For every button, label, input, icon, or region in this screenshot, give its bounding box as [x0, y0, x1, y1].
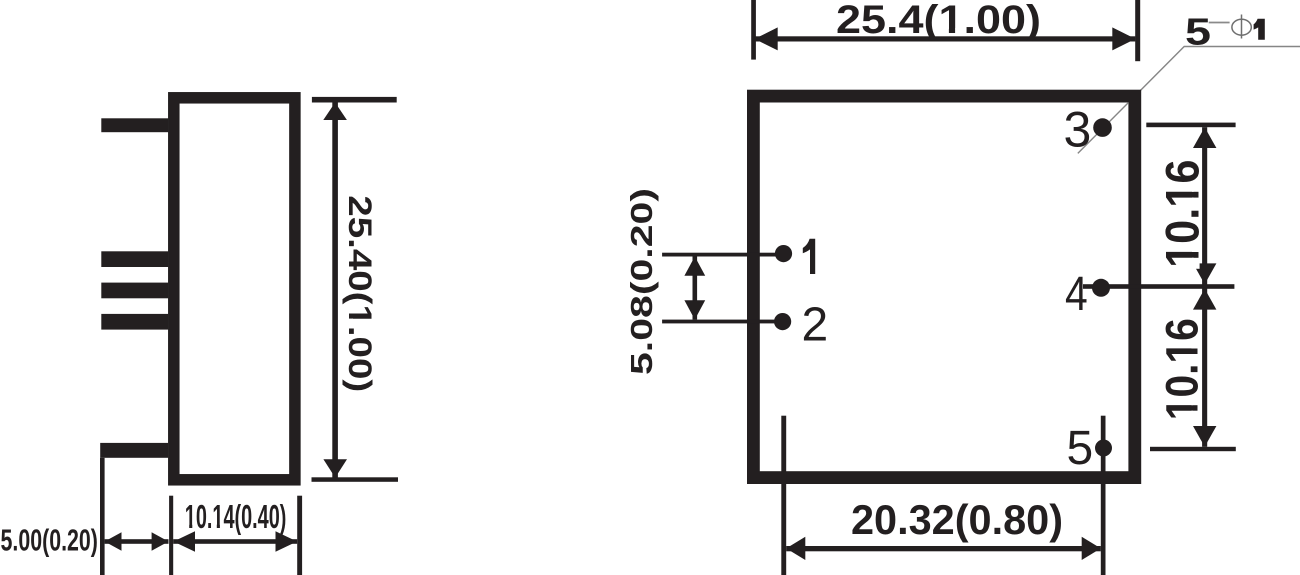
svg-text:3: 3 [1064, 101, 1092, 157]
dimension 25.40(1.00) line [332, 103, 338, 478]
dimension 20.32(0.80) right arrowhead [1082, 537, 1101, 560]
svg-text:5: 5 [1067, 422, 1094, 475]
dimension 10.16 vertical line [1202, 127, 1207, 447]
dimension 10.14(0.40) left arrowhead [174, 531, 196, 552]
svg-text:10.16: 10.16 [1156, 318, 1207, 420]
pin top (side view lead) [101, 118, 168, 132]
dimension 5.00(0.20) line [105, 539, 169, 544]
pin 1 dot [775, 245, 792, 262]
dimension 25.40(1.00) top extension tick [312, 97, 397, 103]
leader line to pin 3 (5-phi1 callout) [1078, 47, 1300, 154]
dimension 10.14(0.40) right arrowhead [276, 531, 298, 552]
dimension 10.16 upper up arrowhead [1193, 127, 1216, 148]
dimension 25.4(1.00) right extension tick [1135, 0, 1140, 61]
pin bottom (side view lead) [100, 443, 168, 458]
dimension 25.40(1.00) bottom extension tick [312, 477, 399, 482]
dimension 5.08(0.20) down arrowhead [684, 300, 705, 319]
svg-text:5.00(0.20): 5.00(0.20) [1, 525, 98, 558]
dimension 5.00(0.20) left arrowhead [105, 532, 122, 550]
white masks hiding "1" base serifs to mimic target font [184, 28, 1199, 529]
dimension 20.32(0.80) line [786, 546, 1101, 551]
callout text 1 [1254, 19, 1265, 40]
leader line segment inside body [1078, 103, 1129, 154]
dimension 20.32(0.80) left arrowhead [786, 537, 805, 560]
dimension shared extension line (body left) [169, 496, 173, 575]
module body (bottom view) [753, 96, 1134, 478]
dimension 10.16 lower up arrowhead [1193, 289, 1216, 310]
pin mid 1 (side view lead) [101, 251, 168, 267]
svg-text:20.32(0.80): 20.32(0.80) [851, 497, 1063, 543]
dimension 20.32(0.80) right extension line [1101, 416, 1106, 575]
pin mid 2 (side view lead) [101, 283, 168, 299]
dimension 25.4(1.00) line [755, 36, 1136, 41]
svg-text:10.16: 10.16 [1155, 160, 1208, 268]
dimension 25.4(1.00) left arrowhead [755, 27, 778, 50]
pin 5 dot [1095, 440, 1112, 457]
svg-text:10.14(0.40): 10.14(0.40) [185, 499, 287, 536]
dimension 10.14(0.40) line [173, 539, 297, 544]
svg-text:25.40(1.00): 25.40(1.00) [342, 195, 378, 392]
dimension 10.16 bottom extension tick [1150, 447, 1236, 451]
dimension 25.4(1.00) left extension tick [751, 0, 756, 60]
svg-text:5.08(0.20): 5.08(0.20) [624, 188, 659, 375]
dimension 5.00(0.20) right arrowhead [152, 532, 169, 550]
pin 3 dot [1093, 118, 1112, 137]
dimension 25.40(1.00) down arrowhead [323, 459, 347, 477]
svg-text:2: 2 [802, 299, 829, 352]
dimension 20.32(0.80) left extension line [781, 416, 786, 575]
pin 4 dot [1092, 279, 1110, 297]
dimension 25.40(1.00) up arrowhead [323, 103, 347, 121]
pin 4 lead line [1083, 284, 1234, 289]
dimension 10.14(0.40) right extension line [297, 496, 302, 575]
dimension 10.16 top extension tick [1146, 123, 1235, 128]
svg-text:4: 4 [1065, 268, 1088, 321]
pin mid 3 (side view lead) [101, 314, 168, 330]
dimension 10.16 lower down arrowhead [1193, 426, 1216, 447]
dimension 25.4(1.00) right arrowhead [1112, 27, 1135, 50]
dimension 10.16 upper down arrowhead [1193, 263, 1216, 284]
pin 1 lead line [662, 253, 790, 257]
pin 2 lead line [662, 320, 790, 324]
pin 2 dot [774, 313, 791, 330]
pin 1 label [803, 239, 815, 274]
dimension 5.08(0.20) line [693, 257, 698, 320]
svg-text:25.4(1.00): 25.4(1.00) [836, 0, 1041, 42]
callout phi symbol [1232, 15, 1251, 39]
module body (side view) [174, 98, 295, 480]
dimension 5.00(0.20) left extension line [100, 458, 105, 575]
dimension 5.08(0.20) up arrowhead [684, 257, 705, 276]
svg-text:5: 5 [1185, 10, 1211, 52]
callout dash [1209, 22, 1230, 24]
